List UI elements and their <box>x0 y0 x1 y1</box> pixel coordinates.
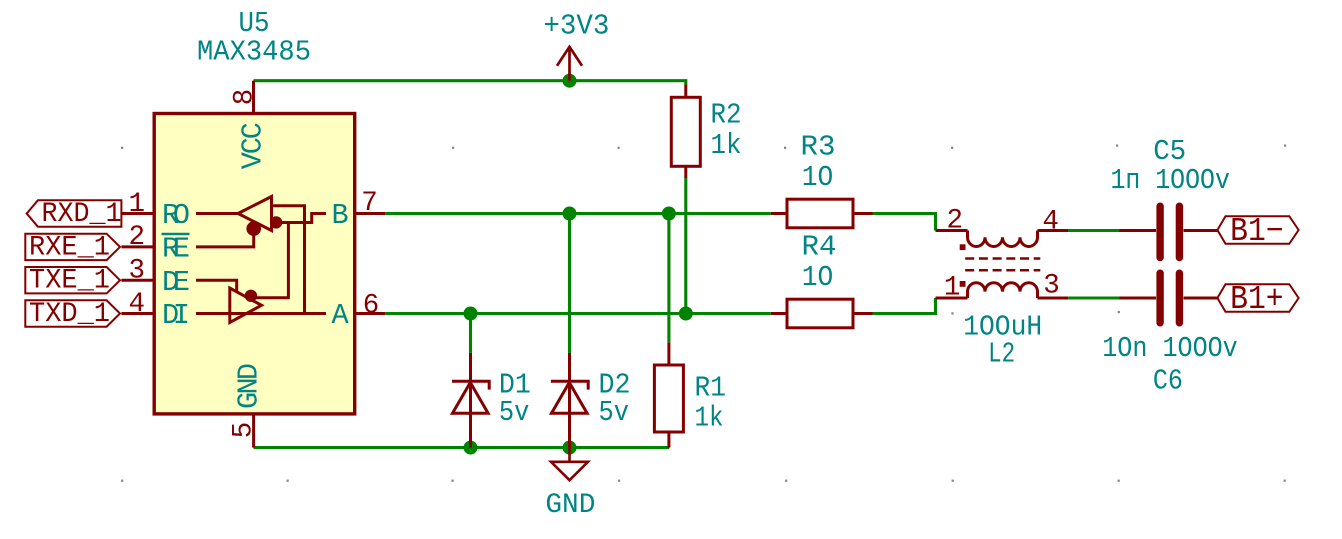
wire ground rail <box>254 446 670 449</box>
svg-text:R1: R1 <box>695 372 727 405</box>
svg-text:DI: DI <box>162 299 190 332</box>
junction +3V3 <box>563 74 577 88</box>
pin 7 <box>355 212 386 215</box>
pin 5 <box>252 414 255 448</box>
global label TXE_1 <box>25 267 120 293</box>
global label B1+ <box>1217 284 1298 312</box>
wire L2 pin4 to C5 <box>1068 229 1120 232</box>
svg-text:R4: R4 <box>802 231 837 264</box>
svg-text:2: 2 <box>946 206 963 237</box>
pin 6 <box>355 312 386 315</box>
capacitor C6 <box>1120 273 1218 323</box>
svg-text:R3: R3 <box>801 131 836 164</box>
wire RE to enable dot <box>196 229 254 247</box>
svg-text:GND: GND <box>233 363 266 409</box>
wire R3 to L2 pin2 <box>873 214 936 231</box>
svg-text:MAX3485: MAX3485 <box>197 36 311 69</box>
svg-text:RO: RO <box>162 199 190 232</box>
pin 3 <box>121 279 154 282</box>
junction D1/gnd rail <box>464 441 478 455</box>
pin 4 <box>121 312 154 315</box>
capacitor C5 <box>1120 206 1218 257</box>
pin 1 <box>121 212 154 215</box>
svg-text:TXE_1: TXE_1 <box>29 266 110 297</box>
ground symbol <box>551 448 588 481</box>
receiver triangle <box>238 197 272 231</box>
L2 pin 1 <box>936 297 968 300</box>
L2 pin 4 <box>1038 229 1069 232</box>
svg-text:B: B <box>332 199 349 232</box>
svg-text:RXE_1: RXE_1 <box>29 232 110 263</box>
driver triangle <box>230 288 262 323</box>
resistor R4 <box>771 299 873 328</box>
svg-text:3: 3 <box>1043 270 1060 301</box>
svg-text:1O: 1O <box>802 261 834 294</box>
L2 bottom winding <box>968 283 1038 298</box>
L2 pin 2 <box>936 229 968 232</box>
svg-text:3: 3 <box>128 256 145 287</box>
L2 top winding <box>968 231 1038 247</box>
svg-text:2: 2 <box>128 222 145 253</box>
wire RO to receiver <box>196 212 238 215</box>
svg-text:GND: GND <box>545 490 595 521</box>
wire D1 top <box>469 314 472 353</box>
svg-text:B1+: B1+ <box>1230 281 1284 318</box>
wire B to receiver input <box>276 214 326 223</box>
global label RXE_1 <box>25 234 120 260</box>
svg-text:1k: 1k <box>711 129 742 162</box>
svg-text:1k: 1k <box>695 402 724 435</box>
svg-text:R2: R2 <box>711 98 742 131</box>
IC U5 body <box>154 114 355 414</box>
junction D2/B <box>563 207 577 221</box>
L2 pin 3 <box>1038 297 1069 300</box>
resistor R1 <box>654 342 683 447</box>
wire B column to driver <box>253 223 288 298</box>
junction R2/A <box>679 307 693 321</box>
svg-text:B1−: B1− <box>1230 213 1284 250</box>
svg-text:6: 6 <box>363 291 380 322</box>
resistor R3 <box>771 199 873 228</box>
wire B net horizontal <box>385 212 771 215</box>
svg-text:+3V3: +3V3 <box>543 10 609 43</box>
junction D1/A <box>464 307 478 321</box>
dot receiver enable <box>246 221 261 236</box>
svg-text:RXD_1: RXD_1 <box>42 199 122 230</box>
svg-text:VCC: VCC <box>237 122 270 169</box>
dot receiver input <box>270 216 282 228</box>
wire R1 top <box>667 214 670 343</box>
svg-text:A: A <box>332 299 350 332</box>
global label B1- <box>1217 216 1298 244</box>
global label RXD_1 <box>27 200 122 226</box>
junction D2/gnd rail <box>563 441 577 455</box>
L2 core dashed lines <box>965 257 1040 260</box>
pin 2 <box>121 245 154 248</box>
wire DI to A <box>196 312 326 315</box>
wire receiver top to A column <box>272 206 305 314</box>
svg-text:1O: 1O <box>802 161 834 194</box>
svg-text:5v: 5v <box>499 396 530 429</box>
svg-text:L2: L2 <box>988 337 1015 370</box>
svg-text:DE: DE <box>162 266 190 299</box>
wire L2 pin3 to C6 <box>1068 296 1119 299</box>
svg-text:4: 4 <box>1042 206 1059 237</box>
svg-text:4: 4 <box>128 289 145 320</box>
svg-text:7: 7 <box>361 188 378 219</box>
diode D1 zener <box>452 353 489 448</box>
svg-text:RE: RE <box>162 233 190 266</box>
pin 8 <box>252 81 255 114</box>
wire R2 bottom to A-net <box>684 178 687 314</box>
wire DE to driver <box>196 280 237 292</box>
svg-text:5v: 5v <box>599 396 630 429</box>
L2 polarity dot top <box>960 244 966 250</box>
junction R1/B <box>662 207 676 221</box>
inductor L2 transformer <box>936 231 1069 299</box>
wire A net horizontal <box>385 312 771 315</box>
svg-text:1: 1 <box>944 273 961 304</box>
svg-text:8: 8 <box>230 89 261 106</box>
svg-text:TXD_1: TXD_1 <box>29 299 110 330</box>
wire R4 to L2 pin1 <box>873 298 936 314</box>
svg-text:1: 1 <box>128 189 145 220</box>
svg-text:1On 1OOOv: 1On 1OOOv <box>1102 332 1238 365</box>
overline RE <box>162 233 190 235</box>
diode D2 zener <box>551 353 588 448</box>
L2 polarity dot bottom <box>960 281 966 287</box>
power +3V3 symbol <box>557 47 582 81</box>
svg-text:C6: C6 <box>1153 365 1183 398</box>
svg-text:1п 1OOOv: 1п 1OOOv <box>1110 164 1230 197</box>
wire +3V3 rail <box>254 81 686 85</box>
global label TXD_1 <box>25 300 120 326</box>
dot driver output <box>245 290 257 302</box>
wire D2 top <box>568 214 571 353</box>
resistor R2 <box>671 85 700 179</box>
svg-text:5: 5 <box>229 422 260 439</box>
